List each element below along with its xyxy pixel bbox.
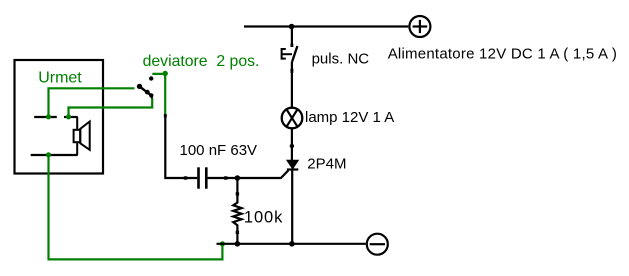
svg-text:Urmet: Urmet	[38, 69, 82, 86]
svg-text:2P4M: 2P4M	[307, 156, 346, 173]
svg-text:100 nF 63V: 100 nF 63V	[180, 142, 258, 159]
svg-text:Alimentatore 12V DC 1 A ( 1,5: Alimentatore 12V DC 1 A ( 1,5 A )	[388, 46, 617, 63]
svg-text:100k: 100k	[244, 209, 283, 227]
svg-text:lamp 12V 1 A: lamp 12V 1 A	[305, 109, 394, 126]
svg-text:deviatore 2 pos.: deviatore 2 pos.	[143, 53, 260, 70]
svg-text:puls. NC: puls. NC	[312, 50, 370, 67]
